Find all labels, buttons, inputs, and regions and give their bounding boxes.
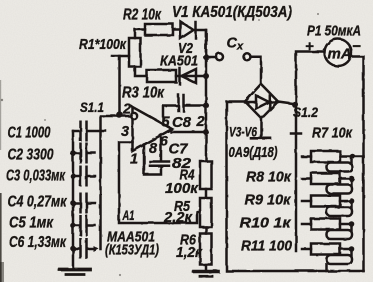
resistor R1 — [129, 38, 141, 67]
wire bus down from tick — [118, 56, 121, 115]
node R11 lead — [349, 246, 355, 252]
resistor R10 — [311, 219, 340, 230]
node R9 lead — [349, 198, 355, 204]
resistor R4 — [200, 161, 212, 189]
connector loop R11 to bottom — [350, 249, 353, 256]
svg-text:0А9(Д18): 0А9(Д18) — [229, 144, 278, 161]
svg-text:100к: 100к — [165, 181, 199, 197]
wire R7 right lead to rail — [340, 155, 364, 158]
wire S1.1 wiper arrow — [93, 246, 99, 252]
wire S1.2 first contact stub — [291, 132, 301, 135]
svg-text:С5 1мк: С5 1мк — [9, 215, 54, 232]
svg-text:2: 2 — [122, 102, 131, 118]
wire R10 right lead — [340, 223, 352, 226]
svg-text:R1*100к: R1*100к — [79, 36, 127, 53]
wire meter to right rail — [350, 57, 364, 272]
wire R1 bottom to R3 left — [135, 67, 147, 77]
svg-text:1: 1 — [130, 152, 138, 168]
wire R2 to V1 — [173, 28, 181, 31]
svg-text:R8 10к: R8 10к — [246, 169, 292, 186]
wire R10 left stub — [302, 223, 311, 226]
svg-text:С2 3300: С2 3300 — [8, 147, 54, 164]
wire R9 left stub — [302, 200, 311, 203]
svg-text:8: 8 — [149, 141, 158, 157]
resistor R6 — [200, 234, 212, 265]
capacitor C6 — [70, 239, 94, 258]
wire bridge left to bottom loop — [227, 102, 364, 272]
capacitor C2 — [70, 144, 95, 163]
node R8 lead — [349, 176, 355, 182]
capacitor C3 — [70, 167, 95, 186]
svg-text:R10 1к: R10 1к — [240, 215, 292, 232]
node output rail — [203, 129, 209, 135]
wire R11 left stub — [302, 248, 311, 251]
resistor R9 — [311, 196, 340, 207]
wire bridge right to S1.2 bus — [278, 102, 296, 105]
wire C7 to pin1 — [144, 145, 161, 175]
wire R4-R5 junction — [205, 189, 208, 198]
svg-text:S1.1: S1.1 — [80, 99, 104, 115]
op-amp A1 triangle — [133, 107, 173, 151]
resistor R5 — [200, 198, 212, 227]
capacitor C1 — [73, 122, 106, 141]
wire bridge bottom T bar — [260, 119, 263, 138]
svg-text:R2 10к: R2 10к — [123, 6, 162, 23]
svg-text:V1 КА501(КД503А): V1 КА501(КД503А) — [172, 4, 292, 21]
capacitor C7 — [150, 160, 169, 163]
svg-text:(К153УД1): (К153УД1) — [105, 243, 159, 259]
op-amp inversion circle pin 2 — [131, 113, 137, 119]
connector loop R8-R9 — [350, 179, 353, 186]
svg-text:С3 0,033мк: С3 0,033мк — [6, 168, 66, 185]
node R10 lead — [349, 221, 355, 227]
capacitor C8 — [177, 95, 180, 111]
svg-text:+: + — [305, 38, 314, 55]
wire R6 to ground — [205, 265, 208, 271]
wire V1 to rail corner — [196, 30, 207, 57]
wire S1.2 bus up and to meter — [296, 52, 325, 105]
wire C8 to rail — [185, 104, 207, 107]
wire R8 right lead — [340, 177, 352, 180]
wire V2 to rail — [176, 75, 206, 78]
svg-text:С8: С8 — [172, 115, 192, 131]
wire pin5 to C8 — [163, 106, 178, 125]
diode V3-V6 inside bridge — [245, 101, 256, 104]
svg-text:С1 1000: С1 1000 — [8, 125, 51, 142]
rectifier bridge V3-V6 — [245, 84, 278, 119]
wire pin3 input and down to divider — [119, 142, 200, 223]
resistor R2 — [145, 24, 173, 35]
svg-text:С4 0,27мк: С4 0,27мк — [8, 194, 68, 211]
wire output pin6 to rail — [171, 131, 206, 134]
connector loop R7-R8 — [350, 157, 353, 164]
capacitor C4 — [70, 194, 95, 213]
svg-text:2,2к: 2,2к — [163, 210, 193, 226]
node R7 lead — [350, 154, 356, 160]
node rail Cx — [203, 54, 209, 60]
wire pin8 lead — [160, 136, 163, 161]
resistor R11 — [311, 244, 340, 255]
wire R11 right lead — [340, 248, 352, 251]
svg-text:С6 1,33мк: С6 1,33мк — [9, 234, 67, 251]
svg-text:R3 10к: R3 10к — [122, 85, 165, 102]
resistor R3 — [147, 70, 176, 82]
wire rail to Cx left terminal — [206, 56, 216, 59]
diode V1 — [181, 22, 194, 39]
node C8 rail — [203, 103, 209, 109]
svg-text:−: − — [352, 38, 361, 55]
node rail V2 — [203, 73, 209, 79]
wire capacitor left bus — [72, 131, 75, 267]
svg-text:5: 5 — [162, 115, 171, 131]
svg-text:2: 2 — [196, 114, 205, 130]
wire dot left to S1.1 bus — [101, 116, 120, 249]
wire S1.2 bus down contacts — [295, 104, 298, 251]
svg-text:6: 6 — [160, 133, 168, 149]
svg-text:R11 100: R11 100 — [241, 238, 293, 255]
svg-text:КА501: КА501 — [160, 54, 198, 70]
wire R2 left lead down to R1 — [135, 30, 145, 39]
capacitor C5 — [70, 216, 95, 235]
wire R7 left stub — [302, 155, 311, 158]
wire R5-R6 junction — [205, 227, 208, 234]
wire Cx right to bridge top — [251, 57, 261, 84]
svg-text:1,2к: 1,2к — [176, 245, 203, 261]
wire main rail — [205, 30, 208, 161]
ground divider — [194, 270, 218, 274]
node Cx left terminal — [216, 53, 223, 60]
wire R9 right lead — [340, 200, 352, 203]
svg-text:А1: А1 — [122, 207, 135, 223]
ground capacitor bank — [60, 268, 90, 272]
meter P1 — [325, 39, 352, 66]
svg-text:3: 3 — [121, 124, 129, 140]
resistor R8 — [311, 173, 340, 184]
svg-text:S1.2: S1.2 — [293, 104, 318, 120]
svg-text:R9 10к: R9 10к — [245, 192, 292, 209]
connector loop R9-R10 — [350, 201, 353, 208]
resistor R7 — [311, 151, 340, 162]
diode V2 — [178, 68, 181, 84]
node bridge right junction — [292, 101, 298, 107]
svg-text:R7 10к: R7 10к — [312, 125, 353, 142]
svg-text:V3-V6: V3-V6 — [229, 125, 257, 140]
wire dot to op-amp input circle — [120, 115, 131, 118]
node Cx right terminal — [244, 53, 251, 60]
connector loop R10-R11 — [350, 224, 353, 231]
svg-text:тА: тА — [328, 46, 352, 63]
wire tick R1 left — [112, 55, 129, 58]
wire R8 left stub — [302, 177, 311, 180]
node pin2 junction — [116, 111, 123, 118]
